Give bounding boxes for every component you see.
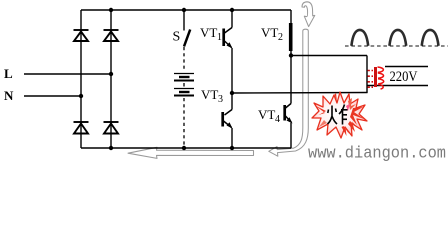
svg-text:VT: VT [261, 25, 278, 40]
diode D1 (bridge top-left) [74, 30, 89, 41]
explosion starburst [312, 92, 367, 138]
character 炸 (explode) drawn strokes [328, 105, 348, 125]
switch S blade [184, 30, 190, 47]
svg-text:L: L [4, 66, 13, 81]
diode D2 (bridge top-right) [104, 30, 119, 41]
svg-text:N: N [4, 88, 14, 103]
wire dashed battery to bottom rail [183, 98, 185, 148]
sine wave dashed baseline [345, 45, 448, 47]
wire VT1 node to transformer primary bottom [232, 92, 368, 95]
wire right bridge leg [110, 10, 112, 148]
wire N input [24, 95, 81, 97]
current flow long down-left arrow (hollow) [269, 29, 309, 156]
wire transformer secondary top [385, 66, 428, 68]
node bottom rail / battery branch [182, 146, 186, 150]
transistor VT1 [224, 10, 233, 93]
node VT2 emitter / VT4 collector [289, 53, 293, 57]
transistor VT4 [285, 56, 293, 149]
transistor VT3 [223, 93, 233, 148]
transformer T1 core [374, 67, 377, 87]
battery GB cell group 2 [174, 89, 194, 96]
transistor VT2 (thick bar body) [290, 10, 292, 56]
transformer T1 secondary winding (red arcs) [378, 67, 384, 89]
diode D3 (bridge bottom-left) [74, 122, 89, 134]
wire dashed switch to battery [183, 47, 185, 70]
current flow hook arrow (top, hollow) [302, 2, 315, 27]
diode D4 (bridge bottom-right) [104, 122, 119, 134]
node bottom rail / bridge [109, 146, 113, 150]
node bottom rail / VT3 branch [230, 146, 234, 150]
node VT1 emitter / VT3 collector [230, 91, 234, 95]
svg-text:www.diangon.com: www.diangon.com [308, 145, 446, 164]
svg-text:VT: VT [258, 107, 275, 122]
svg-text:1: 1 [217, 32, 222, 43]
wire transformer primary vertical [366, 56, 368, 94]
wire transformer secondary bottom [367, 85, 428, 87]
svg-text:2: 2 [278, 32, 283, 43]
wire left bridge leg [80, 10, 82, 148]
svg-text:VT: VT [201, 87, 218, 102]
top rail wire [81, 9, 291, 11]
svg-text:VT: VT [200, 25, 217, 40]
wire switch top [183, 10, 185, 31]
svg-text:220V: 220V [390, 69, 418, 85]
battery GB cell group 1 [174, 74, 194, 81]
node top rail / VT1 branch [230, 8, 234, 12]
transformer T1 primary winding (red dashes) [368, 71, 374, 88]
bottom rail wire [81, 147, 291, 149]
node top rail / bridge [109, 8, 113, 12]
wire VT2 node to transformer primary top [291, 55, 367, 57]
battery inter-cell dash [183, 83, 185, 87]
svg-text:4: 4 [275, 114, 280, 125]
wire L input [24, 73, 111, 75]
node top rail / switch branch [182, 8, 186, 12]
svg-text:S: S [173, 30, 181, 45]
sine wave half-cycles [351, 30, 438, 46]
node N junction [79, 94, 83, 98]
current flow long left arrow on bottom rail (hollow) [128, 147, 254, 158]
node L junction [109, 72, 113, 76]
svg-text:3: 3 [218, 94, 223, 105]
